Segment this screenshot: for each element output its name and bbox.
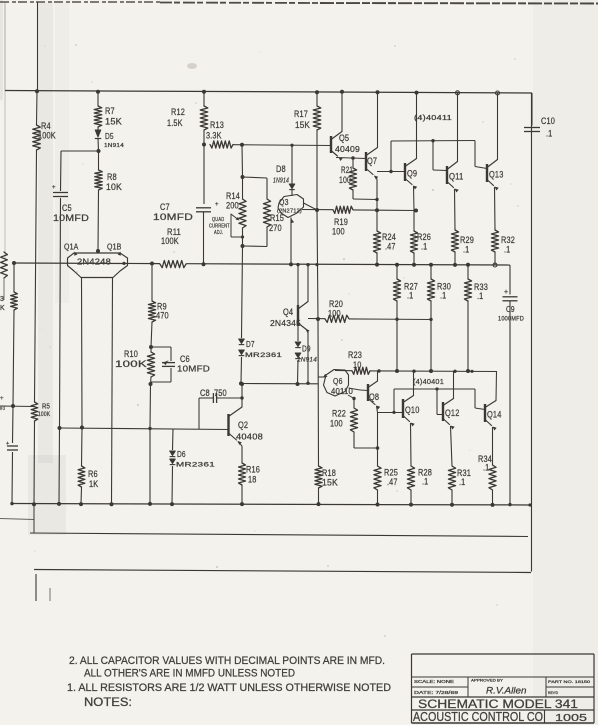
svg-text:APPROVED BY: APPROVED BY [471,679,504,683]
svg-text:.1: .1 [422,477,428,487]
svg-text:Q6: Q6 [333,376,343,386]
svg-text:.1: .1 [477,291,483,301]
svg-text:R16: R16 [246,465,260,475]
svg-text:.1: .1 [504,245,510,255]
svg-text:+: + [52,185,56,191]
svg-text:D5: D5 [105,132,114,141]
svg-text:Q8: Q8 [369,392,379,402]
svg-text:.47: .47 [387,477,398,487]
svg-text:ACOUSTIC CONTROL CO: ACOUSTIC CONTROL CO [413,710,543,724]
svg-text:.1: .1 [546,129,552,139]
svg-text:2N4248: 2N4248 [77,258,111,267]
svg-text:D6: D6 [177,450,186,459]
svg-text:40409: 40409 [335,144,360,154]
svg-text:D8: D8 [276,164,286,174]
svg-text:SCALE: NONE: SCALE: NONE [414,679,454,684]
svg-text:R10: R10 [124,349,138,359]
svg-text:1005: 1005 [555,712,587,724]
svg-text:D7: D7 [246,340,255,349]
svg-text:(4)40401: (4)40401 [413,379,444,386]
svg-text:R19: R19 [334,217,348,227]
svg-text:R21: R21 [341,165,353,175]
svg-text:CURRENT: CURRENT [209,224,230,230]
svg-text:R14: R14 [226,191,240,201]
svg-text:ADJ.: ADJ. [214,230,223,236]
svg-text:C10: C10 [541,116,555,126]
svg-text:3: 3 [0,296,4,303]
svg-text:(2N2712): (2N2712) [277,209,302,215]
svg-text:R.V.Allen: R.V.Allen [486,686,527,697]
svg-text:R17: R17 [294,109,308,119]
svg-text:40408: 40408 [236,432,263,442]
svg-text:100: 100 [328,309,341,319]
svg-text:R22: R22 [332,409,346,419]
svg-text:MR2361: MR2361 [176,462,215,469]
svg-text:Q4: Q4 [283,307,293,317]
svg-text:10MFD: 10MFD [53,213,89,223]
svg-text:D9: D9 [302,345,311,354]
svg-text:R25: R25 [384,468,398,478]
svg-text:Q14: Q14 [487,410,502,420]
svg-text:3.3K: 3.3K [206,131,222,141]
svg-text:REV'D: REV'D [548,690,558,695]
svg-text:R4: R4 [41,121,51,131]
svg-text:R8: R8 [107,172,117,182]
svg-text:.1: .1 [421,242,427,252]
svg-text:R15: R15 [270,213,284,223]
svg-text:R7: R7 [105,106,115,116]
svg-text:10MFD: 10MFD [153,212,193,222]
svg-text:.47: .47 [385,242,396,252]
svg-text:Q3: Q3 [279,197,289,207]
svg-text:100: 100 [330,419,343,429]
svg-text:10K: 10K [106,182,122,192]
svg-text:+: + [0,396,4,402]
svg-text:(4)40411: (4)40411 [414,115,452,122]
svg-text:Q2: Q2 [238,420,248,430]
svg-text:Q7: Q7 [367,156,377,166]
svg-text:+: + [504,289,508,296]
svg-text:.1: .1 [440,291,446,301]
svg-text:+: + [6,441,9,447]
svg-text:100K: 100K [38,131,56,141]
svg-text:2N4345: 2N4345 [270,318,301,328]
svg-text:1K: 1K [89,479,98,489]
svg-text:18: 18 [248,475,257,485]
svg-text:QUAD: QUAD [212,217,224,223]
svg-text:.1: .1 [459,477,465,487]
svg-text:+: + [215,202,219,208]
svg-text:750: 750 [214,388,227,398]
svg-text:Q5: Q5 [339,133,349,143]
svg-text:Q12: Q12 [445,408,460,418]
svg-text:C9: C9 [506,305,515,314]
svg-text:.1: .1 [463,245,469,255]
svg-text:100K: 100K [115,359,147,369]
svg-text:R13: R13 [210,120,224,130]
svg-text:15K: 15K [105,117,122,127]
svg-text:1000MFD: 1000MFD [498,317,524,323]
svg-text:2. ALL CAPACITOR VALUES WITH D: 2. ALL CAPACITOR VALUES WITH DECIMAL POI… [69,655,385,667]
svg-text:R12: R12 [171,107,185,117]
svg-text:Q13: Q13 [489,170,504,180]
svg-text:Q11: Q11 [449,172,464,182]
svg-text:1.5K: 1.5K [167,118,183,128]
svg-text:200: 200 [226,201,239,211]
svg-text:C8: C8 [200,388,210,398]
svg-text:Q10: Q10 [405,405,420,415]
svg-text:270: 270 [269,223,282,233]
svg-text:DATE: 7/28/69: DATE: 7/28/69 [414,690,459,695]
svg-text:C7: C7 [160,202,170,212]
svg-text:100K: 100K [161,236,179,246]
svg-text:1N914: 1N914 [297,357,317,364]
svg-text:C5: C5 [62,203,72,213]
svg-text:10MFD: 10MFD [177,364,210,374]
svg-text:15K: 15K [322,478,338,488]
svg-text:.1: .1 [407,291,413,301]
svg-text:K: K [0,305,5,312]
svg-text:R20: R20 [329,299,343,309]
svg-text:R32: R32 [501,235,515,245]
svg-text:ALL OTHER'S ARE IN MMFD UNLESS: ALL OTHER'S ARE IN MMFD UNLESS NOTED [84,668,295,680]
svg-text:10: 10 [353,360,362,370]
svg-text:R26: R26 [417,232,431,242]
svg-text:100: 100 [339,175,351,185]
svg-text:R18: R18 [322,468,336,478]
svg-text:470: 470 [156,311,169,321]
svg-text:1N914: 1N914 [273,178,289,185]
svg-text:#3: #3 [0,406,5,412]
svg-text:.1: .1 [483,463,489,473]
svg-text:C6: C6 [180,354,190,364]
svg-text:PART NO. 16150: PART NO. 16150 [548,679,591,684]
svg-text:Q1A: Q1A [64,242,79,252]
svg-text:Q9: Q9 [407,169,417,179]
svg-text:NOTES:: NOTES: [84,697,132,709]
svg-text:Q1B: Q1B [107,242,122,252]
svg-text:100: 100 [332,227,345,237]
svg-text:R24: R24 [382,232,396,242]
svg-text:1. ALL RESISTORS ARE 1/2 WATT: 1. ALL RESISTORS ARE 1/2 WATT UNLESS OTH… [67,682,391,694]
svg-text:1N914: 1N914 [104,143,124,149]
svg-text:R6: R6 [88,469,98,479]
svg-text:R29: R29 [460,235,474,245]
svg-text:15K: 15K [295,120,310,130]
svg-text:SCHEMATIC MODEL 341: SCHEMATIC MODEL 341 [418,697,578,711]
svg-text:MR2361: MR2361 [245,352,282,359]
svg-text:100K: 100K [38,411,51,418]
svg-text:R23: R23 [348,350,362,360]
svg-text:R5: R5 [42,402,50,411]
